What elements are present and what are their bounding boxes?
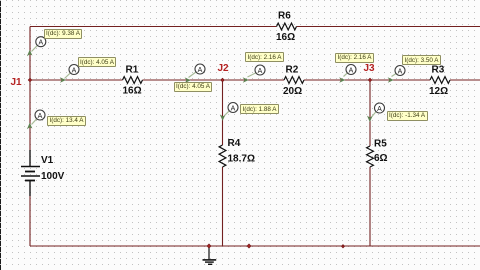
svg-text:A: A (258, 68, 263, 75)
label I(dc): 4.05 A (left) (78, 57, 117, 67)
junction (341, 245, 344, 248)
resistor R1 (123, 77, 143, 84)
probe arrow (9.38 A) (27, 37, 46, 57)
svg-text:J2: J2 (218, 63, 230, 74)
svg-text:A: A (349, 67, 354, 74)
label I(dc): 4.05 A (right) (174, 82, 213, 92)
probe arrow (2.16 A right) (339, 65, 356, 83)
wire: R2 to R3 through J3 (304, 79, 430, 81)
svg-text:12Ω: 12Ω (429, 86, 448, 97)
probe arrow (1.88 A) (220, 103, 238, 121)
svg-text:J1: J1 (11, 77, 23, 88)
svg-text:A: A (398, 68, 403, 75)
probe arrow (13.4 A) (27, 110, 45, 129)
wire: R4 branch lower (222, 167, 224, 246)
probe arrow (3.50 A) (388, 66, 405, 83)
label I(dc): 1.88 A (240, 104, 279, 114)
svg-text:A: A (72, 67, 77, 74)
ground (203, 247, 217, 265)
wire: R1 to R2 through J2 (143, 79, 285, 81)
resistor R4 (219, 145, 226, 167)
svg-text:V1: V1 (41, 155, 54, 166)
probe arrow (4.05 A right) (185, 64, 205, 83)
svg-text:R5: R5 (374, 139, 387, 150)
wire: R3 to right edge (450, 79, 480, 81)
svg-text:R6: R6 (278, 11, 291, 22)
junction at ground (207, 244, 211, 248)
wire: R5 branch lower (369, 167, 371, 246)
label I(dc): -1.34 A (387, 111, 428, 121)
svg-text:16Ω: 16Ω (123, 86, 142, 97)
svg-text:A: A (198, 67, 203, 74)
resistor R5 (367, 146, 374, 167)
probe arrow (4.05 A left) (60, 65, 79, 83)
svg-text:18.7Ω: 18.7Ω (228, 154, 255, 165)
wire: left vertical battery branch (29, 27, 31, 167)
wire: R4 branch upper (222, 80, 224, 145)
svg-text:A: A (38, 113, 43, 120)
label I(dc): 2.16 A (left) (245, 52, 284, 62)
svg-text:A: A (377, 106, 382, 113)
label I(dc): 2.16 A (right) (335, 53, 374, 63)
svg-text:R3: R3 (432, 65, 445, 76)
wire: middle horizontal J1 to R1 (30, 79, 123, 81)
wire: R5 branch upper (369, 80, 371, 146)
svg-text:R2: R2 (286, 65, 299, 76)
left window edge (0, 0, 1, 270)
label I(dc): 9.38 A (44, 29, 83, 39)
wire (297, 26, 480, 28)
label I(dc): 13.4 A (47, 116, 86, 126)
svg-text:20Ω: 20Ω (283, 86, 302, 97)
svg-text:A: A (38, 40, 43, 47)
probe arrow (2.16 A left) (243, 65, 265, 83)
junction (247, 244, 251, 248)
svg-text:100V: 100V (41, 171, 65, 182)
svg-text:R1: R1 (126, 65, 139, 76)
resistor R6 (277, 23, 297, 30)
svg-text:A: A (231, 105, 236, 112)
svg-text:16Ω: 16Ω (276, 32, 295, 43)
probe arrow (-1.34 A) (367, 103, 385, 122)
wire (29, 181, 31, 246)
battery V1 (21, 150, 40, 196)
wire: bottom horizontal (30, 245, 480, 247)
svg-text:6Ω: 6Ω (374, 153, 388, 164)
resistor R2 (284, 77, 304, 84)
wire: top horizontal from corner to right edge (through R6 gap) (30, 26, 277, 28)
label I(dc): 3.50 A (402, 55, 441, 65)
svg-text:J3: J3 (364, 63, 376, 74)
resistor R3 (430, 77, 450, 84)
svg-text:R4: R4 (228, 138, 241, 149)
